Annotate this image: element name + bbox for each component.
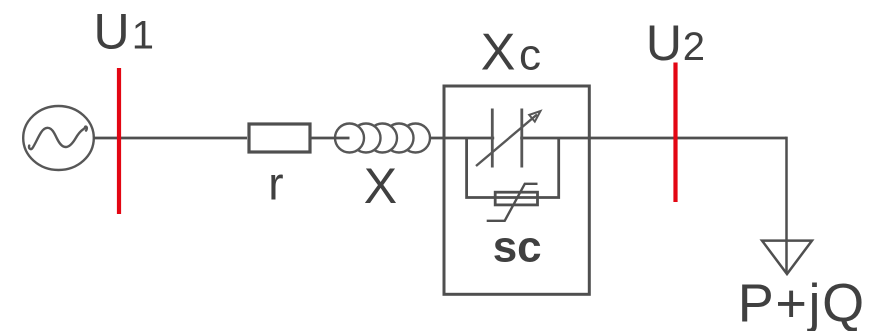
- svg-text:X: X: [364, 158, 397, 214]
- svg-text:P+jQ: P+jQ: [738, 274, 866, 331]
- svg-text:c: c: [519, 31, 541, 80]
- svg-text:2: 2: [683, 25, 705, 69]
- svg-text:sc: sc: [493, 223, 542, 272]
- svg-text:U: U: [646, 15, 682, 71]
- svg-text:1: 1: [132, 14, 154, 58]
- svg-text:U: U: [94, 4, 130, 60]
- svg-text:r: r: [268, 157, 283, 209]
- svg-text:X: X: [481, 24, 516, 82]
